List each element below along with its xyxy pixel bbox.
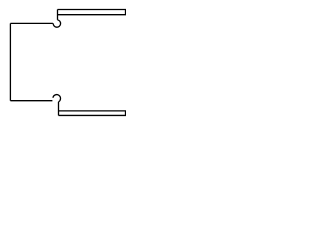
wire	[9, 23, 11, 100]
node B	[53, 95, 61, 102]
wire	[59, 110, 127, 112]
wire	[58, 102, 60, 116]
wire	[125, 10, 127, 15]
wire	[58, 14, 127, 16]
wire	[59, 114, 127, 116]
node A	[53, 20, 60, 27]
wire	[57, 10, 59, 20]
wire	[10, 100, 52, 102]
wire	[125, 111, 127, 116]
wire	[10, 22, 53, 24]
wire	[58, 9, 127, 11]
